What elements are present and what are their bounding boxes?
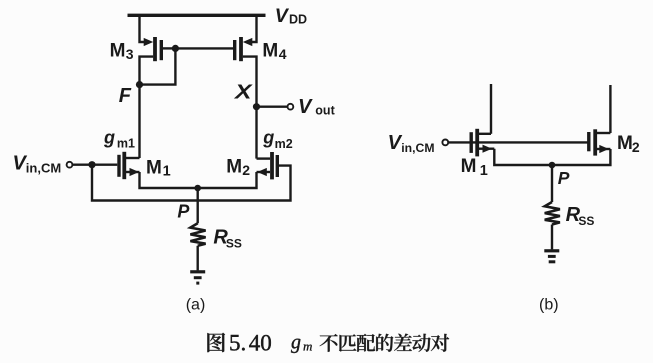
wire M1 source to P (140, 172, 198, 188)
svg-text:1: 1 (163, 164, 171, 180)
resistor RSS (a) (190, 223, 205, 246)
transistor M2 (b) (NMOS) (589, 129, 611, 155)
svg-text:g: g (262, 127, 274, 147)
terminal Vin,CM (b) (442, 140, 448, 146)
ground (a) (190, 270, 205, 273)
svg-text:M: M (146, 158, 162, 179)
ground (b) (544, 249, 559, 252)
resistor RSS (b) (545, 202, 560, 225)
node X (253, 103, 260, 110)
svg-text:4: 4 (279, 46, 287, 62)
wire M3 drain to node F (140, 57, 154, 85)
wire M1 source to P (b) (494, 149, 552, 165)
terminal Vout (288, 104, 294, 110)
svg-text:F: F (119, 85, 132, 107)
node P (b) (549, 162, 556, 169)
node F (136, 81, 143, 88)
svg-text:3: 3 (126, 46, 134, 62)
svg-text:M: M (110, 40, 126, 61)
transistor M4 (PMOS) (235, 37, 253, 61)
wire RSS to ground (a) (196, 246, 198, 271)
svg-text:V: V (298, 96, 313, 118)
wire P to RSS (196, 188, 198, 223)
svg-text:40: 40 (249, 331, 272, 356)
wire VDD to M4 source (246, 15, 257, 43)
svg-text:m1: m1 (117, 137, 135, 151)
svg-text:2: 2 (632, 139, 640, 155)
wire M2 source to P (b) (552, 149, 610, 165)
transistor M1 (b) (NMOS) (471, 129, 494, 157)
wire M2 drain up (b) (609, 85, 611, 133)
svg-text:(b): (b) (539, 297, 559, 314)
svg-text:in,CM: in,CM (401, 141, 434, 155)
wire F to M1 drain (138, 85, 140, 158)
svg-text:g: g (103, 127, 115, 147)
svg-text:V: V (275, 5, 290, 27)
wire M3 diode connection to F (140, 48, 176, 84)
node M3 gate junction (172, 45, 179, 52)
svg-text:P: P (558, 168, 570, 188)
node Vin junction (88, 161, 95, 168)
svg-text:out: out (315, 104, 335, 118)
terminal Vin,CM (a) (67, 162, 73, 168)
svg-text:m: m (303, 339, 312, 354)
caption 图 5.40 gm 不匹配的差动对 (207, 333, 225, 352)
svg-text:X: X (234, 81, 254, 103)
wire M1 drain up (b) (490, 84, 492, 134)
svg-text:M: M (617, 133, 633, 154)
svg-text:M: M (262, 40, 278, 61)
wire M3 gate lead (163, 47, 176, 49)
svg-text:M: M (461, 156, 477, 177)
wire M4 drain to node X (243, 57, 257, 107)
wire VDD rail (128, 14, 266, 17)
wire RSS to ground (b) (551, 225, 553, 250)
svg-text:(a): (a) (186, 297, 206, 314)
wire Vin,CM to both gates (b) (448, 141, 589, 143)
wire M2 gate down-and-left to Vin (92, 165, 291, 201)
wire X to Vout terminal (257, 105, 288, 107)
wire Vin,CM to M1 gate (72, 163, 117, 165)
wire current-mirror gate line to M4 (175, 47, 233, 49)
svg-text:5.: 5. (229, 331, 246, 356)
svg-text:m2: m2 (275, 137, 293, 151)
svg-text:DD: DD (289, 13, 307, 27)
transistor M1 (NMOS) (119, 152, 140, 179)
svg-text:2: 2 (242, 162, 250, 178)
svg-text:in,CM: in,CM (26, 160, 61, 175)
svg-text:g: g (291, 332, 301, 354)
svg-text:1: 1 (480, 163, 488, 179)
svg-text:M: M (226, 156, 242, 177)
wire VDD to M3 source (140, 15, 151, 43)
wire M2 source to P (198, 172, 257, 188)
svg-text:SS: SS (578, 214, 594, 228)
transistor M2 (NMOS, mirrored) (257, 152, 278, 179)
svg-text:P: P (177, 202, 190, 222)
wire P to RSS (b) (551, 165, 553, 202)
wire X to M2 drain (255, 107, 257, 159)
svg-text:SS: SS (226, 237, 242, 251)
node P (a) (194, 185, 201, 192)
transistor M3 (PMOS, diode-connected) (144, 37, 162, 61)
